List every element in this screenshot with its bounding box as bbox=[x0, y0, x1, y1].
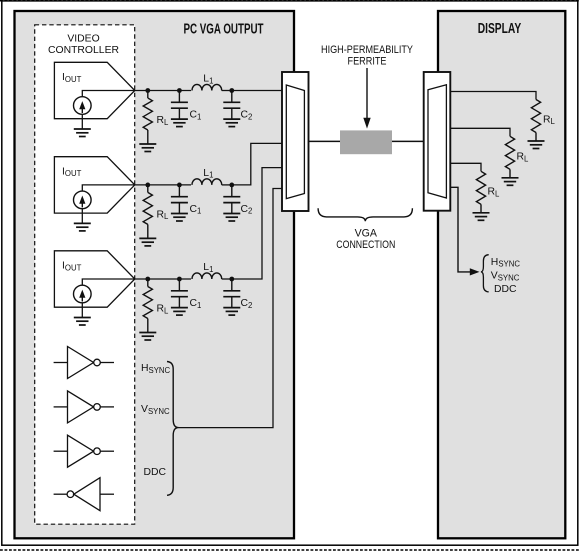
wire from current source to output tip (channel 1) bbox=[82, 91, 135, 97]
svg-text:CONTROLLER: CONTROLLER bbox=[48, 45, 120, 56]
VIDEO CONTROLLER dashed enclosure bbox=[35, 25, 135, 524]
capacitor C2 (channel 3) bbox=[223, 279, 240, 308]
ground under R_L (channel 1) bbox=[139, 144, 156, 152]
ground under C2 (channel 3) bbox=[223, 308, 240, 316]
wire VGA connector to R_L green channel bbox=[450, 128, 510, 136]
VGA connector (display side) bbox=[424, 72, 451, 211]
ground under current source (channel 1) bbox=[74, 129, 91, 137]
svg-text:DDC: DDC bbox=[144, 467, 167, 478]
wire filter output to VGA connector (channel 2) bbox=[232, 143, 282, 185]
ground under C2 (channel 2) bbox=[223, 214, 240, 222]
DISPLAY block bbox=[438, 11, 565, 538]
wire current source to ground (channel 2) bbox=[81, 209, 83, 224]
capacitor C1 (channel 3) bbox=[171, 279, 188, 308]
PC VGA OUTPUT block bbox=[15, 11, 295, 538]
wire L1 to C2 node (channel 1) bbox=[222, 90, 232, 92]
figure bottom rule bbox=[0, 549, 579, 551]
video DAC output cell I_OUT (channel 3) bbox=[54, 251, 134, 307]
inductor L1 (channel 3) bbox=[192, 273, 222, 279]
brace grouping sync signals (PC side) bbox=[167, 362, 179, 496]
wire VGA connector to R_L red channel bbox=[450, 92, 536, 100]
wire sync bundle into display bbox=[450, 187, 470, 272]
wire junction to RL (channel 1) bbox=[147, 91, 149, 99]
inductor L1 (channel 1) bbox=[192, 84, 222, 90]
wire filter output to VGA connector (channel 3) bbox=[232, 168, 282, 279]
ground under R_L (channel 3) bbox=[139, 333, 156, 341]
video DAC output cell I_OUT (channel 1) bbox=[54, 62, 134, 118]
resistor R_L display termination (R_L red channel) bbox=[531, 100, 540, 133]
wire L1 to C2 node (channel 3) bbox=[222, 278, 232, 280]
wire RL to ground (channel 1) bbox=[147, 130, 149, 144]
video DAC output cell I_OUT (channel 2) bbox=[54, 157, 134, 213]
node: C1 junction (channel 2) bbox=[177, 183, 182, 188]
ground under C2 (channel 1) bbox=[223, 119, 240, 127]
svg-text:HIGH-PERMEABILITY: HIGH-PERMEABILITY bbox=[321, 44, 413, 56]
wire junction to RL (channel 2) bbox=[147, 185, 149, 193]
ground under C1 (channel 3) bbox=[171, 308, 188, 316]
wire RL to ground (channel 3) bbox=[147, 319, 149, 333]
wire VGA cable (right segment) bbox=[392, 140, 424, 142]
wire from current source to output tip (channel 3) bbox=[82, 279, 135, 285]
figure top rule bbox=[0, 0, 579, 2]
svg-text:DISPLAY: DISPLAY bbox=[478, 20, 522, 37]
inductor L1 (channel 2) bbox=[192, 179, 222, 185]
wire filter output to VGA connector (channel 1) bbox=[232, 90, 282, 92]
node: C1 junction (channel 1) bbox=[177, 88, 182, 93]
wire DAC output to filter (channel 1) bbox=[135, 90, 191, 92]
svg-text:PC VGA OUTPUT: PC VGA OUTPUT bbox=[184, 21, 264, 38]
svg-text:FERRITE: FERRITE bbox=[348, 56, 387, 68]
VGA connector D-shell face (display side) bbox=[428, 85, 446, 198]
ground under R_L (channel 2) bbox=[139, 238, 156, 246]
resistor R_L source termination (channel 2) bbox=[143, 192, 152, 224]
ground under current source (channel 2) bbox=[74, 223, 91, 231]
wire junction to RL (channel 3) bbox=[147, 279, 149, 287]
arrow from ferrite label to ferrite bead bbox=[366, 68, 368, 119]
inverting buffer H_SYNC (row 1) bbox=[54, 347, 114, 379]
resistor R_L display termination (R_L blue channel) bbox=[476, 171, 485, 204]
wire VGA connector to R_L blue channel bbox=[450, 163, 481, 171]
wire R_L green channel to ground bbox=[509, 169, 511, 178]
wire DAC output to filter (channel 3) bbox=[135, 278, 191, 280]
current source CS1 bbox=[74, 97, 92, 115]
resistor R_L display termination (R_L green channel) bbox=[505, 136, 514, 169]
brace VGA connection span bbox=[318, 208, 412, 221]
wire current source to ground (channel 3) bbox=[81, 303, 83, 318]
node: C2 junction (channel 3) bbox=[229, 277, 234, 282]
ground under R_L green channel bbox=[502, 178, 519, 186]
svg-text:VIDEO: VIDEO bbox=[67, 34, 99, 45]
VGA connector D-shell face (PC side) bbox=[286, 85, 304, 199]
wire R_L red channel to ground bbox=[535, 133, 537, 142]
wire DAC output to filter (channel 2) bbox=[135, 184, 191, 186]
wire sync bundle to VGA connector bbox=[179, 189, 283, 428]
VGA connector (PC side) bbox=[282, 72, 309, 211]
ground under C1 (channel 1) bbox=[171, 119, 188, 127]
resistor R_L source termination (channel 1) bbox=[143, 98, 152, 130]
capacitor C2 (channel 2) bbox=[223, 185, 240, 214]
wire VGA cable (left segment) bbox=[309, 140, 341, 142]
capacitor C2 (channel 1) bbox=[223, 91, 240, 120]
ground under C1 (channel 2) bbox=[171, 214, 188, 222]
resistor R_L source termination (channel 3) bbox=[143, 287, 152, 319]
capacitor C1 (channel 1) bbox=[171, 91, 188, 120]
ground under current source (channel 3) bbox=[74, 318, 91, 326]
wire from current source to output tip (channel 2) bbox=[82, 185, 135, 191]
ferrite bead on cable bbox=[340, 130, 392, 154]
ground under R_L blue channel bbox=[473, 213, 490, 221]
ground under R_L red channel bbox=[528, 141, 545, 149]
node: C2 junction (channel 2) bbox=[229, 183, 234, 188]
wire current source to ground (channel 1) bbox=[81, 114, 83, 129]
svg-text:DDC: DDC bbox=[494, 284, 517, 295]
arrowhead sync bundle bbox=[470, 268, 480, 275]
node: C1 junction (channel 3) bbox=[177, 277, 182, 282]
node: C2 junction (channel 1) bbox=[229, 88, 234, 93]
svg-text:VGA: VGA bbox=[355, 228, 378, 240]
wire RL to ground (channel 2) bbox=[147, 224, 149, 238]
inverting buffer V_SYNC (row 2) bbox=[54, 391, 114, 423]
brace grouping display sync signals bbox=[481, 255, 489, 292]
wire L1 to C2 node (channel 2) bbox=[222, 184, 232, 186]
current source CS3 bbox=[74, 285, 92, 303]
capacitor C1 (channel 2) bbox=[171, 185, 188, 214]
node: source termination junction (channel 1) bbox=[145, 88, 150, 93]
node: source termination junction (channel 3) bbox=[145, 277, 150, 282]
svg-text:CONNECTION: CONNECTION bbox=[336, 239, 395, 251]
current source CS2 bbox=[74, 191, 92, 209]
inverting buffer DDC out (row 3) bbox=[54, 435, 114, 467]
inverting buffer DDC in (row 4, input from right) bbox=[54, 478, 114, 511]
node: source termination junction (channel 2) bbox=[145, 183, 150, 188]
wire R_L blue channel to ground bbox=[480, 204, 482, 213]
